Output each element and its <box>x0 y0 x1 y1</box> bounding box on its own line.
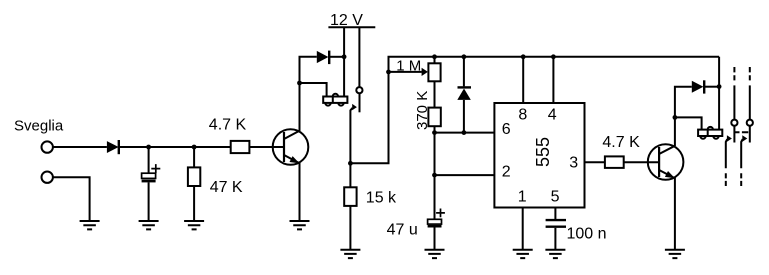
wire junction to K1 left pin <box>300 83 327 97</box>
node junction D3 bottom <box>462 130 467 135</box>
switch SW1 contact circle <box>356 87 362 93</box>
potentiometer P1 wiper arrow <box>389 68 428 76</box>
wire junction to R2 <box>193 147 195 167</box>
svg-text:47 K: 47 K <box>210 179 243 196</box>
wire R3 to ground <box>349 206 351 250</box>
wire Q2 emitter to ground <box>674 177 676 250</box>
relay coil K2 <box>698 127 722 139</box>
wire rail to pin4 <box>552 57 554 103</box>
switch SW2a dashed wire top <box>733 67 735 80</box>
node junction D4 cathode rail <box>717 84 722 89</box>
node junction R2 top <box>192 145 197 150</box>
wire Q2 collector up to D4 <box>675 87 692 146</box>
diode D4 <box>692 80 704 93</box>
wire D4 to junction <box>705 86 719 88</box>
resistor R2 47K <box>188 167 200 186</box>
switch SW1 moving arm <box>350 104 357 163</box>
svg-text:2: 2 <box>502 164 511 181</box>
ground Q1 <box>290 221 310 229</box>
switch SW2a moving arm <box>726 135 732 168</box>
node junction R5 bottom pin6 <box>432 130 437 135</box>
wire rail to P1 <box>434 57 436 64</box>
wire junction to C1 <box>148 147 150 173</box>
ground pin1 <box>513 250 533 258</box>
potentiometer P1 1M body <box>428 63 440 81</box>
ground C1 <box>139 221 159 229</box>
node junction pin2 C2 <box>432 173 437 178</box>
wire rail corner to K2 right pin <box>718 57 720 130</box>
wire Q1 emitter to ground <box>299 162 301 221</box>
node junction D2 cathode 12V <box>342 54 347 59</box>
switch SW2b fixed blade <box>749 126 751 143</box>
wire pin5 to C3 <box>554 208 556 220</box>
switch SW2b contact circle <box>747 120 753 126</box>
wire C1 to ground <box>148 182 150 221</box>
transistor Q2 <box>648 144 684 180</box>
ground C3 <box>545 250 565 258</box>
terminal T2 <box>42 172 53 183</box>
op-amp U1 555 box <box>494 103 584 208</box>
wire junction to K2 left pin <box>675 117 702 129</box>
svg-text:4.7 K: 4.7 K <box>602 134 640 151</box>
capacitor C2 47u electrolytic <box>428 209 445 228</box>
svg-text:47 u: 47 u <box>387 222 418 239</box>
resistor R5 370K <box>428 108 440 127</box>
node junction pin8 on rail <box>521 54 526 59</box>
diode D2 <box>317 51 329 65</box>
svg-text:5: 5 <box>551 188 560 205</box>
svg-text:6: 6 <box>502 121 511 138</box>
switch SW2b dashed wire top <box>749 67 751 80</box>
svg-text:4: 4 <box>548 106 557 123</box>
svg-text:15 k: 15 k <box>366 190 397 207</box>
wire 12V to K1 right pin <box>343 27 345 96</box>
wire pin6 <box>435 132 495 134</box>
wire pin2 <box>435 174 495 176</box>
wire Q1 collector up to D2 <box>300 57 317 131</box>
wire D3 to pin6 wire <box>463 100 465 133</box>
svg-text:1: 1 <box>518 188 527 205</box>
wire C2 to ground <box>434 228 436 250</box>
ground R3 <box>340 250 360 258</box>
node junction P1 top on rail <box>432 54 437 59</box>
mechanical link dashed <box>735 131 748 133</box>
diode D1 <box>107 140 119 154</box>
capacitor C1 electrolytic <box>142 164 161 182</box>
ground C2 <box>425 250 445 258</box>
transistor Q1 <box>273 129 309 165</box>
wire T1 to D1 <box>53 146 107 148</box>
ground R2 <box>184 221 204 229</box>
node junction pin4 on rail <box>551 54 556 59</box>
wire D1 to R1 <box>120 146 231 148</box>
wire rail to D3 <box>463 57 465 87</box>
ground T2 <box>80 221 100 229</box>
node junction collector-relay <box>297 81 302 86</box>
resistor R1 4.7K <box>231 141 250 153</box>
terminal T1 <box>42 141 53 152</box>
wire D2 to junction <box>330 56 344 58</box>
switch SW2b top wire <box>749 85 751 119</box>
wire C3 to ground <box>554 228 556 250</box>
node junction wiper <box>386 70 391 75</box>
wire pin1 to ground <box>522 208 524 250</box>
capacitor C3 100n <box>546 220 566 227</box>
wire node to rail corner <box>350 57 719 164</box>
svg-text:Sveglia: Sveglia <box>14 117 64 134</box>
svg-text:100 n: 100 n <box>567 226 607 243</box>
svg-text:4.7 K: 4.7 K <box>209 117 247 134</box>
switch SW2b moving arm <box>741 135 747 168</box>
wire node to R3 <box>349 163 351 187</box>
svg-text:3: 3 <box>569 154 578 171</box>
switch SW2a contact circle <box>731 120 737 126</box>
diode D3 <box>457 87 471 100</box>
relay coil K1 <box>323 94 347 106</box>
wire T2 to ground <box>53 177 90 221</box>
wire R1 to Q1 base <box>249 146 284 148</box>
wire R5 down through pin2 node to C2 <box>434 126 436 219</box>
node junction C1 top <box>146 145 151 150</box>
svg-text:8: 8 <box>518 106 527 123</box>
wire P1 to R5 <box>434 81 436 107</box>
resistor R4 4.7K <box>605 156 624 168</box>
wire R2 to ground <box>193 186 195 221</box>
switch SW2b dashed wire bottom <box>740 173 742 186</box>
node junction Q2 collector relay <box>673 115 678 120</box>
node junction SW1 15k <box>348 161 353 166</box>
switch SW1 fixed blade <box>359 93 361 112</box>
wire pin3 to R4 <box>585 161 605 163</box>
wire 12V to SW1 <box>358 27 360 87</box>
resistor R3 15k <box>344 187 356 206</box>
wire R4 to Q2 base <box>624 161 659 163</box>
switch SW2a dashed wire bottom <box>725 173 727 186</box>
switch SW2a fixed blade <box>733 126 735 143</box>
power rail 12V bar <box>328 26 375 28</box>
ground Q2 <box>665 250 685 258</box>
node junction D3 top on rail <box>462 54 467 59</box>
svg-text:555: 555 <box>533 137 553 167</box>
wire rail to pin8 <box>522 57 524 103</box>
switch SW2a top wire <box>733 85 735 119</box>
